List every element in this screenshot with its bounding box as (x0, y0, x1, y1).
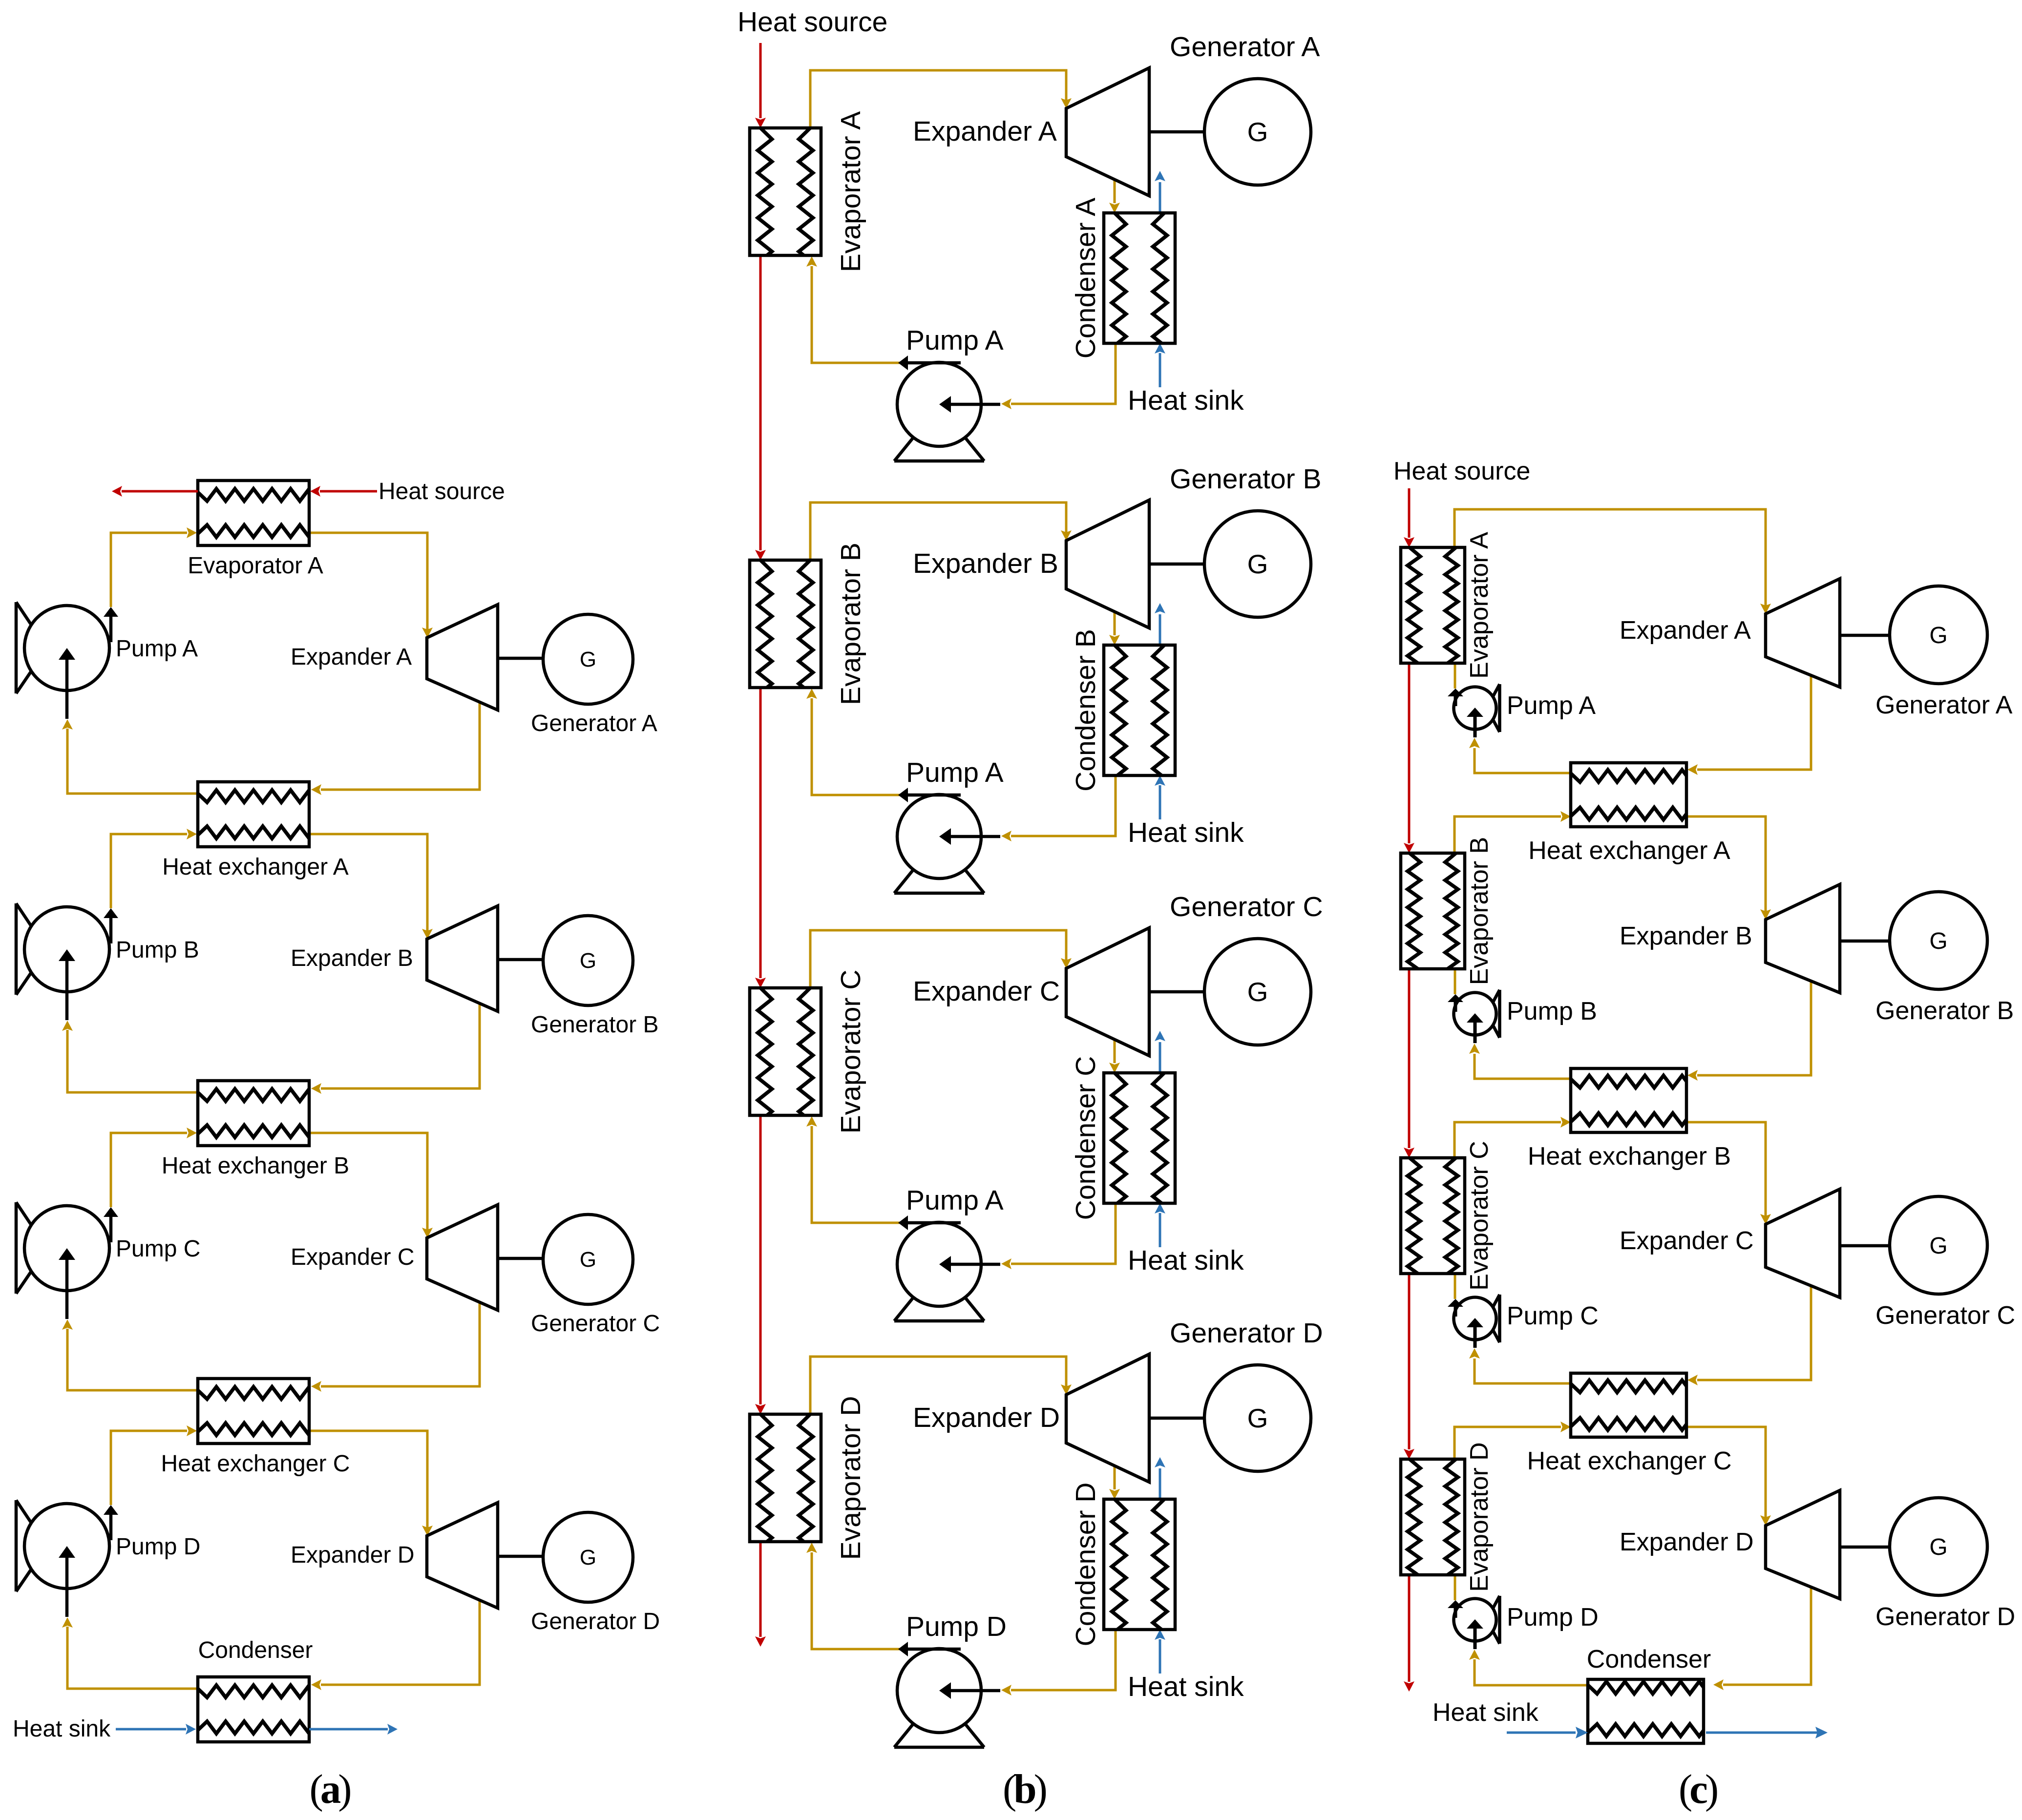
svg-text:G: G (1247, 977, 1268, 1007)
svg-text:(c): (c) (1679, 1766, 1719, 1812)
svg-text:Generator A: Generator A (531, 711, 657, 736)
svg-text:G: G (1929, 1534, 1947, 1560)
svg-text:Pump A: Pump A (906, 325, 1004, 356)
svg-text:G: G (1247, 117, 1268, 147)
svg-text:Heat exchanger B: Heat exchanger B (162, 1153, 349, 1179)
svg-text:Expander C: Expander C (291, 1244, 414, 1270)
svg-text:Evaporator C: Evaporator C (835, 970, 866, 1134)
svg-text:G: G (580, 949, 596, 973)
svg-text:Expander B: Expander B (1620, 922, 1752, 950)
svg-text:Generator C: Generator C (1875, 1301, 2015, 1330)
svg-text:Pump D: Pump D (116, 1534, 200, 1560)
svg-text:Condenser D: Condenser D (1070, 1483, 1101, 1647)
svg-text:G: G (580, 1248, 596, 1272)
svg-text:Condenser: Condenser (198, 1637, 313, 1663)
svg-text:Condenser C: Condenser C (1070, 1056, 1101, 1220)
svg-text:G: G (580, 648, 596, 671)
svg-text:Generator C: Generator C (1170, 891, 1323, 922)
svg-text:Pump D: Pump D (906, 1611, 1007, 1642)
svg-text:Pump C: Pump C (1507, 1302, 1599, 1330)
svg-text:Heat exchanger A: Heat exchanger A (162, 854, 349, 880)
svg-text:Heat exchanger A: Heat exchanger A (1528, 837, 1730, 865)
svg-text:Expander A: Expander A (913, 116, 1057, 147)
svg-text:Evaporator A: Evaporator A (835, 111, 866, 272)
svg-text:Generator D: Generator D (531, 1609, 660, 1634)
svg-text:Heat sink: Heat sink (1128, 385, 1244, 416)
svg-text:Expander D: Expander D (1620, 1528, 1754, 1556)
svg-text:Evaporator A: Evaporator A (1465, 532, 1494, 679)
svg-text:Evaporator D: Evaporator D (1465, 1442, 1494, 1591)
svg-text:Expander C: Expander C (1620, 1227, 1754, 1255)
svg-text:Expander A: Expander A (1620, 616, 1751, 645)
svg-text:Evaporator B: Evaporator B (1465, 837, 1494, 985)
svg-text:Generator D: Generator D (1170, 1318, 1323, 1349)
svg-text:Condenser: Condenser (1587, 1645, 1711, 1674)
svg-text:Heat source: Heat source (737, 6, 887, 38)
svg-text:G: G (1929, 623, 1947, 649)
svg-text:G: G (1929, 928, 1947, 954)
svg-text:Pump B: Pump B (1507, 997, 1597, 1025)
svg-text:Evaporator C: Evaporator C (1465, 1141, 1494, 1290)
svg-text:Evaporator B: Evaporator B (835, 543, 866, 705)
svg-text:Expander D: Expander D (291, 1542, 414, 1568)
svg-text:Generator B: Generator B (1170, 463, 1322, 495)
svg-text:Pump D: Pump D (1507, 1603, 1599, 1632)
svg-text:Heat sink: Heat sink (1128, 817, 1244, 848)
svg-text:Heat exchanger C: Heat exchanger C (161, 1451, 350, 1477)
svg-text:Condenser A: Condenser A (1070, 198, 1101, 359)
svg-text:Generator D: Generator D (1875, 1603, 2015, 1631)
svg-text:(b): (b) (1003, 1766, 1048, 1812)
svg-text:Generator A: Generator A (1170, 31, 1320, 63)
svg-text:G: G (1247, 1403, 1268, 1433)
svg-text:Expander B: Expander B (913, 548, 1058, 579)
svg-text:Generator A: Generator A (1875, 691, 2013, 719)
svg-text:Generator C: Generator C (531, 1311, 660, 1337)
svg-text:(a): (a) (309, 1766, 352, 1812)
svg-text:Expander B: Expander B (291, 945, 413, 971)
svg-text:Heat source: Heat source (379, 479, 505, 504)
svg-text:Evaporator D: Evaporator D (835, 1396, 866, 1560)
svg-text:Expander D: Expander D (913, 1402, 1060, 1433)
svg-text:Pump A: Pump A (906, 1185, 1004, 1216)
svg-text:Heat sink: Heat sink (1128, 1245, 1244, 1276)
svg-text:G: G (580, 1546, 596, 1569)
svg-text:Pump A: Pump A (116, 636, 198, 662)
svg-text:Pump A: Pump A (1507, 691, 1596, 720)
svg-text:Heat sink: Heat sink (1128, 1671, 1244, 1702)
svg-text:Pump C: Pump C (116, 1236, 200, 1262)
svg-text:Generator B: Generator B (1875, 997, 2014, 1025)
svg-text:Pump A: Pump A (906, 757, 1004, 788)
svg-text:Heat exchanger B: Heat exchanger B (1528, 1142, 1731, 1171)
svg-text:Condenser B: Condenser B (1070, 629, 1101, 792)
svg-text:Generator B: Generator B (531, 1012, 658, 1038)
svg-text:Evaporator A: Evaporator A (188, 553, 323, 579)
svg-text:G: G (1929, 1233, 1947, 1259)
svg-text:Expander A: Expander A (291, 644, 412, 670)
svg-text:Heat sink: Heat sink (13, 1716, 111, 1742)
svg-text:Heat sink: Heat sink (1432, 1698, 1539, 1727)
svg-text:G: G (1247, 549, 1268, 579)
svg-text:Heat exchanger C: Heat exchanger C (1527, 1447, 1731, 1475)
svg-text:Heat source: Heat source (1393, 457, 1530, 485)
svg-text:Expander C: Expander C (913, 976, 1060, 1007)
svg-text:Pump B: Pump B (116, 937, 199, 963)
